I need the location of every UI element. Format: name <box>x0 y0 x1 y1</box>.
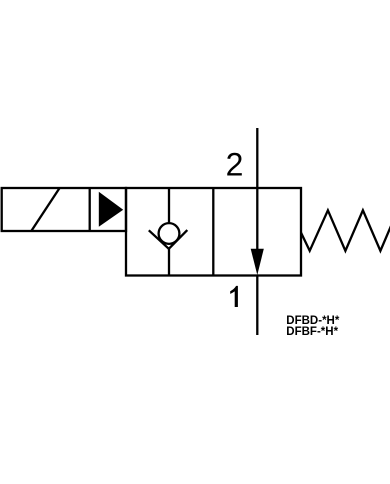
flow line in right cell <box>256 188 258 252</box>
solenoid diagonal stroke <box>31 188 59 231</box>
check valve lower line <box>168 249 170 276</box>
solenoid divider <box>89 188 91 231</box>
flow arrowhead <box>251 249 264 275</box>
check valve seat right <box>169 230 188 249</box>
valve body <box>126 188 301 276</box>
port 1 line <box>256 276 258 336</box>
check valve seat left <box>149 230 169 249</box>
actuator triangle <box>99 192 123 227</box>
svg-text:DFBF-*H*: DFBF-*H* <box>286 326 338 338</box>
check valve ball <box>159 223 180 244</box>
port 1 label <box>230 286 238 307</box>
check valve upper line <box>168 188 170 224</box>
port 2 line <box>256 128 258 188</box>
svg-text:2: 2 <box>226 147 244 183</box>
body divider <box>212 188 214 276</box>
solenoid box <box>2 188 126 231</box>
spring <box>301 210 390 251</box>
